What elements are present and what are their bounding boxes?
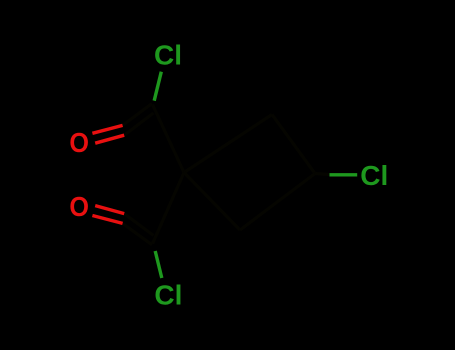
ring bond C1-C2 (cyclobutane top-left edge) xyxy=(184,115,272,173)
ring bond C2-C3 (cyclobutane top-right edge) xyxy=(272,115,315,174)
ring bond C1-C4 (cyclobutane bottom-left edge) xyxy=(184,173,240,231)
wire top C=O carbon half line A xyxy=(123,104,152,126)
bond C3-Cl right (green) xyxy=(330,173,358,176)
bond C1''-Cl bottom (green) xyxy=(155,251,162,278)
wire bottom C=O carbon half line B xyxy=(124,214,153,236)
ring bond C4-C3 (cyclobutane bottom-right edge) xyxy=(240,174,315,231)
double bond C1''=O bottom, red half line A xyxy=(92,216,122,224)
bond C1'-Cl top (green) xyxy=(154,72,357,278)
double bond C1''=O bottom, red half line B xyxy=(95,206,124,214)
wire top C=O carbon half line B xyxy=(124,113,153,135)
wire C1''-C1 (bottom carbonyl carbon to ring C1) xyxy=(153,173,185,244)
svg-text:O: O xyxy=(69,127,89,159)
svg-text:Cl: Cl xyxy=(154,279,182,310)
wire bottom C=O carbon half line A xyxy=(123,223,152,244)
wire C3 to Cl bond carbon half (olive) xyxy=(315,174,331,175)
wire C1'-C1 (top carbonyl carbon to ring C1) xyxy=(123,104,331,245)
svg-text:Cl: Cl xyxy=(154,39,182,70)
double bond C1'=O top, red half line B xyxy=(95,135,124,143)
svg-text:O: O xyxy=(69,191,89,223)
svg-text:Cl: Cl xyxy=(360,160,388,191)
double bond C1'=O top, red half line A xyxy=(92,125,124,223)
